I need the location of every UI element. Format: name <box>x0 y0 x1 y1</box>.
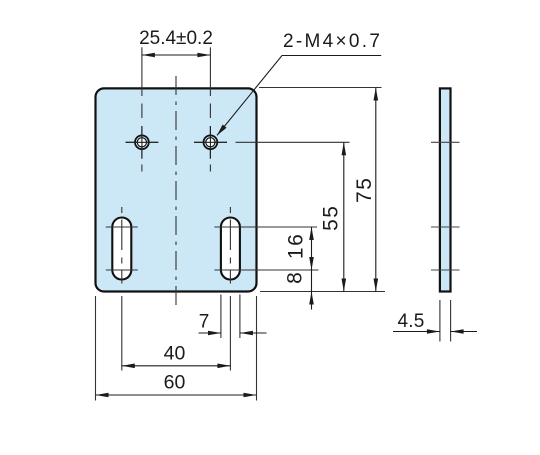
side view slot bottom tick <box>431 269 460 271</box>
extension line slot bottom right <box>242 269 319 271</box>
slot right center line vertical <box>229 207 231 284</box>
dimension 55 line with arrows <box>343 142 345 291</box>
slot right cross line bottom <box>214 269 246 271</box>
slot right outline <box>221 218 240 280</box>
leader line 2-M4×0.7 <box>217 56 381 136</box>
slot left cross line top <box>106 226 138 228</box>
extension line side view left bottom <box>439 300 441 342</box>
dimension 60 line with arrows <box>96 394 257 396</box>
hole M4 right inner circle <box>206 138 215 147</box>
svg-text:75: 75 <box>353 177 376 203</box>
extension line plate left bottom <box>95 296 97 401</box>
svg-text:55: 55 <box>320 205 343 231</box>
extension line side view right bottom <box>450 300 452 342</box>
extension line right hole (25.4 dim) <box>209 47 211 96</box>
extension line slot right center bottom <box>229 296 231 371</box>
crosshair left hole <box>126 126 159 159</box>
crosshair right hole <box>194 126 227 159</box>
svg-text:25.4±0.2: 25.4±0.2 <box>139 28 213 49</box>
center line left hole vertical <box>141 104 143 172</box>
extension line slot right left-edge bottom <box>220 295 222 339</box>
plate vertical center line <box>175 76 177 310</box>
extension line plate top right <box>259 87 382 89</box>
slot right cross line top <box>214 226 246 228</box>
dimension 75 line with arrows <box>375 88 377 292</box>
dimension 4.5 lines with outside arrows <box>393 331 477 333</box>
side view plate outline <box>440 88 451 291</box>
hole M4 left outer circle <box>135 135 149 149</box>
extension line left hole (25.4 dim) <box>141 47 143 96</box>
slot left cross line bottom <box>106 269 138 271</box>
center line right hole horizontal <box>194 141 227 143</box>
hole M4 left inner circle <box>137 138 146 147</box>
center line left hole horizontal <box>126 141 159 143</box>
extension line slot right right-edge bottom <box>239 295 241 339</box>
svg-text:40: 40 <box>164 343 186 365</box>
hole M4 right outer circle <box>204 135 218 149</box>
svg-text:2-M4×0.7: 2-M4×0.7 <box>283 31 382 52</box>
extension line hole center right <box>236 141 350 143</box>
svg-text:7: 7 <box>199 312 210 333</box>
extension line plate right bottom <box>256 296 258 401</box>
dimension 40 line with arrows <box>122 365 231 367</box>
svg-text:16: 16 <box>285 233 308 259</box>
extension line slot top right <box>246 226 317 228</box>
extension line plate bottom right <box>260 291 385 293</box>
dimension 8 line with outside arrow <box>311 270 313 310</box>
slot left outline <box>112 218 131 280</box>
side view hole center tick <box>431 141 460 143</box>
side view slot top tick <box>431 226 460 228</box>
svg-text:60: 60 <box>164 372 186 394</box>
svg-text:4.5: 4.5 <box>397 311 424 332</box>
plate front view outline <box>96 88 257 291</box>
extension line slot left center bottom <box>121 296 123 371</box>
slot left center line vertical <box>121 207 123 284</box>
dimension 16 line with arrows <box>311 227 313 270</box>
dimension 7 lines with outside arrows <box>199 332 267 334</box>
dimension 25.4±0.2 line with arrows <box>142 54 211 56</box>
center line right hole vertical <box>209 104 211 172</box>
svg-text:8: 8 <box>283 271 306 284</box>
